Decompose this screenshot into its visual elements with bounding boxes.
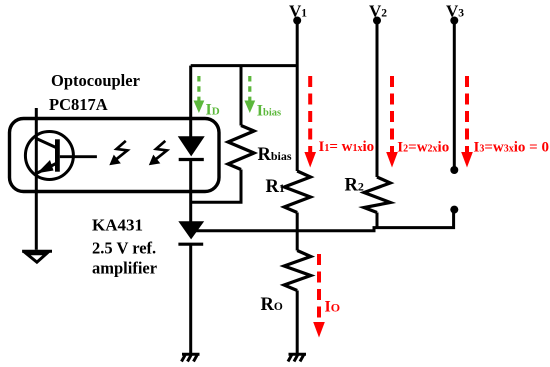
svg-text:Ibias: Ibias <box>257 103 281 120</box>
node dot rail-V3 <box>450 206 458 214</box>
diode D1 LED triangle <box>179 137 204 156</box>
wire Rbias bottom to LED cathode node <box>191 170 241 203</box>
current arrow Io red <box>313 254 325 338</box>
svg-text:PC817A: PC817A <box>49 95 108 114</box>
node dot V2 <box>373 17 381 25</box>
resistor R2 <box>364 177 390 213</box>
wire top rail from LED anode to V1 <box>191 64 298 67</box>
svg-text:R1: R1 <box>266 177 285 197</box>
transistor Q1 emitter arrowhead <box>37 160 54 173</box>
wire Rbias branch <box>240 66 243 126</box>
wire R1 bottom through rail to Ro <box>296 213 299 251</box>
light arrow right <box>149 141 167 165</box>
wire V1 down to R1 <box>296 21 299 172</box>
diode D1 LED cathode bar <box>179 158 204 161</box>
current arrow I2 red <box>386 76 398 168</box>
ground rake under KA431 <box>182 354 200 361</box>
node dot V1 <box>293 17 301 25</box>
svg-text:I2=w2xio: I2=w2xio <box>397 140 449 156</box>
transistor Q1 circle <box>25 132 73 180</box>
diode U1 KA431 cathode bar <box>178 243 203 246</box>
wire V2 down to R2 <box>376 21 379 178</box>
resistor Rbias <box>228 126 254 170</box>
wire KA431 cathode to ground <box>189 244 192 353</box>
wire Ro bottom to ground <box>296 291 299 354</box>
svg-text:Rbias: Rbias <box>258 145 292 165</box>
current arrow ID green <box>194 76 205 113</box>
transistor Q1 base lead <box>60 155 97 158</box>
svg-text:KA431: KA431 <box>92 216 143 235</box>
transistor Q1 collector diagonal <box>36 139 56 148</box>
transistor Q1 base bar <box>55 139 60 171</box>
wire LED cathode to KA431 <box>189 160 192 223</box>
resistor R1 <box>284 171 310 213</box>
reference rail from KA431 to V3 branch <box>194 211 454 231</box>
current arrow Ibias green <box>244 76 255 113</box>
diode U1 KA431 triangle <box>179 222 203 239</box>
svg-text:I1= w1xio: I1= w1xio <box>319 139 375 155</box>
wire V3 open ended <box>453 21 456 171</box>
node dot V3 <box>450 17 458 25</box>
svg-text:R2: R2 <box>345 176 364 196</box>
ground rake under Ro <box>288 354 306 361</box>
optocoupler box PC817A <box>10 119 220 192</box>
current arrow I1 red <box>304 76 316 168</box>
light arrow left <box>109 141 127 165</box>
svg-text:IO: IO <box>325 299 341 316</box>
current arrow I3 red <box>461 76 473 168</box>
transistor Q1 emitter diagonal <box>36 164 56 174</box>
transistor Q1 phototransistor vertical lead <box>35 108 38 250</box>
wire LED anode drop <box>189 66 192 137</box>
resistor Ro <box>284 251 311 291</box>
ground triangle under emitter <box>22 251 52 262</box>
svg-text:Optocoupler: Optocoupler <box>51 71 140 90</box>
svg-text:amplifier: amplifier <box>92 259 157 278</box>
svg-text:2.5 V ref.: 2.5 V ref. <box>92 238 156 257</box>
svg-text:I3=w3xio = 0: I3=w3xio = 0 <box>474 140 549 156</box>
svg-text:RO: RO <box>261 295 283 315</box>
wire R2 bottom to rail <box>376 213 379 230</box>
svg-text:ID: ID <box>206 102 220 119</box>
node dot V3 end <box>450 166 458 174</box>
